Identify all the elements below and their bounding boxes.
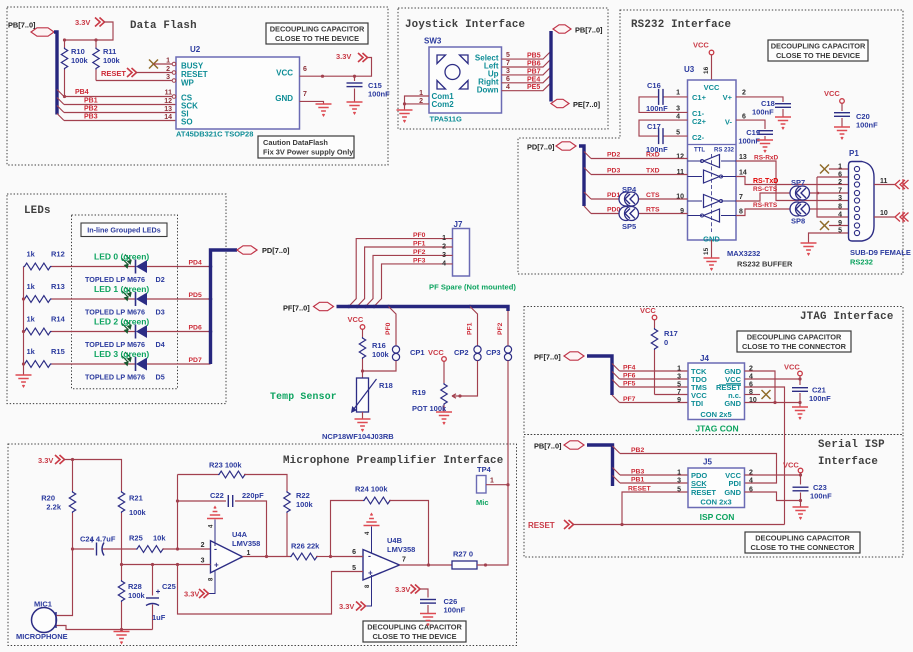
wires buffer stubs inside U3: [688, 160, 703, 162]
svg-text:PB5: PB5: [527, 53, 541, 60]
svg-text:1: 1: [490, 478, 494, 485]
svg-text:PF0: PF0: [413, 232, 426, 239]
svg-text:3: 3: [677, 374, 681, 381]
wire mic+ to C24 node: [57, 549, 73, 616]
wire PB3 to J5 pin1: [620, 474, 688, 476]
svg-text:PF1: PF1: [467, 322, 474, 335]
svg-text:Serial ISP: Serial ISP: [818, 439, 885, 451]
svg-text:1: 1: [677, 470, 681, 477]
capacitor C22 220pF: [178, 500, 227, 502]
bus PB/PE vertical (joystick): [549, 31, 552, 102]
resistor R20 2.2k: [72, 460, 74, 492]
svg-text:C2-: C2-: [692, 133, 705, 142]
resistor R16 100k: [362, 329, 364, 337]
svg-text:R24 100k: R24 100k: [355, 485, 388, 494]
junction C23 vcc: [799, 473, 802, 476]
svg-text:VCC: VCC: [276, 69, 293, 78]
ground (R19): [436, 412, 452, 424]
svg-text:1uF: 1uF: [152, 613, 166, 622]
ground (joystick): [397, 110, 413, 122]
svg-text:7: 7: [303, 91, 307, 98]
svg-text:3: 3: [201, 558, 205, 565]
svg-text:RESET: RESET: [691, 488, 716, 497]
svg-text:MICROPHONE: MICROPHONE: [16, 632, 68, 641]
LED D2 arrows: [122, 255, 131, 268]
svg-text:SW3: SW3: [424, 37, 442, 46]
junction R21/R28 bias: [120, 563, 123, 566]
svg-text:SP5: SP5: [622, 222, 636, 231]
bus branch PF6: [612, 372, 620, 380]
inner dashed box In-line Grouped LEDs: [72, 215, 178, 389]
junction rail R13: [22, 297, 25, 300]
bus branch PF0: [389, 307, 397, 346]
bus entry PD[7..0] (rs232): [556, 142, 576, 150]
junction RESET/J5: [620, 523, 623, 526]
svg-text:GND: GND: [724, 488, 741, 497]
svg-text:Caution DataFlash: Caution DataFlash: [263, 138, 328, 147]
svg-text:WP: WP: [181, 79, 195, 88]
svg-text:V+: V+: [723, 93, 733, 102]
svg-text:100k: 100k: [128, 591, 146, 600]
svg-text:R13: R13: [51, 282, 65, 291]
junction rail R14: [22, 330, 25, 333]
svg-text:PF7: PF7: [623, 396, 636, 403]
U3 divider TTL/RS232: [688, 144, 737, 146]
surge protector SP5: [619, 207, 639, 221]
svg-text:PB6: PB6: [527, 61, 541, 68]
junction bus PD5: [209, 297, 213, 301]
svg-text:2: 2: [201, 542, 205, 549]
connector J7 box: [453, 229, 470, 277]
svg-text:4: 4: [676, 114, 680, 121]
svg-text:R19: R19: [412, 388, 426, 397]
junction bus PD4: [209, 265, 213, 269]
wire RS-CTS pin7 to P1 pin7 through SP7: [736, 193, 792, 201]
svg-text:100k: 100k: [296, 500, 314, 509]
svg-text:PD[7..0]: PD[7..0]: [527, 143, 555, 152]
junction CTS row with tie: [817, 192, 820, 195]
svg-text:5: 5: [677, 382, 681, 389]
wire 3.3V rail to R20/R21: [64, 460, 122, 492]
junction C15 top: [353, 75, 356, 78]
ground (C23): [800, 501, 802, 508]
wire RESET to pin 2: [136, 72, 173, 74]
svg-text:PF4: PF4: [623, 365, 636, 372]
section border RS232 Interface (L-shaped): [518, 10, 903, 274]
section border Microphone Preamplifier Interface: [8, 444, 517, 646]
capacitor C24 4.7uF polarized: [73, 548, 95, 550]
svg-text:TDI: TDI: [691, 399, 703, 408]
wire PB3 to pin 14 SO: [64, 120, 176, 122]
svg-text:13: 13: [164, 106, 172, 113]
wire J7 pin 1 PF0: [349, 239, 453, 307]
svg-text:12: 12: [676, 154, 684, 161]
resistor R23 100k (feedback): [178, 474, 219, 476]
svg-text:1: 1: [677, 366, 681, 373]
svg-text:PB1: PB1: [631, 477, 644, 484]
svg-text:3: 3: [677, 478, 681, 485]
svg-text:CLOSE TO THE DEVICE: CLOSE TO THE DEVICE: [776, 51, 860, 60]
wire J4 pin6 RESET down to ISP: [745, 387, 785, 525]
svg-text:4: 4: [749, 478, 753, 485]
feedback wire to R23/C22: [177, 475, 179, 550]
svg-text:CLOSE TO THE DEVICE: CLOSE TO THE DEVICE: [372, 632, 456, 641]
wire PB4 to pin 11 CS: [64, 96, 173, 98]
svg-text:DECOUPLING CAPACITOR: DECOUPLING CAPACITOR: [367, 623, 462, 632]
buffer T1 (TxD) in U3: [704, 170, 720, 183]
svg-text:PD7: PD7: [189, 357, 202, 364]
note decoupling capacitor close to the device (mic): [363, 621, 466, 642]
wire VCC to pin 16: [711, 55, 713, 80]
svg-text:100nF: 100nF: [809, 394, 831, 403]
U4B pin4 to flipped ground: [371, 527, 373, 554]
ground (C26): [420, 614, 436, 626]
svg-text:RS-RTS: RS-RTS: [753, 202, 778, 209]
svg-text:PF1: PF1: [413, 241, 426, 248]
svg-text:0: 0: [664, 338, 668, 347]
LED D2: [136, 260, 148, 274]
wire PB1 to pin 12 SCK: [64, 104, 176, 106]
svg-text:In-line Grouped LEDs: In-line Grouped LEDs: [87, 226, 160, 235]
svg-text:VCC: VCC: [784, 363, 800, 372]
junction R19 wiper: [458, 394, 461, 397]
bus branch PB2: [613, 446, 621, 454]
section border Joystick Interface: [398, 8, 608, 129]
svg-text:TOPLED LP M676: TOPLED LP M676: [85, 308, 145, 317]
svg-text:JTAG Interface: JTAG Interface: [800, 311, 894, 323]
LED D4: [136, 325, 148, 339]
bus entry PF[7..0] (JTAG): [564, 352, 584, 360]
resistor R26 22k: [290, 553, 318, 560]
capacitor C20: [841, 103, 843, 111]
LED D3: [136, 292, 148, 306]
svg-text:R21: R21: [129, 494, 143, 503]
svg-text:R14: R14: [51, 315, 66, 324]
ground (C20): [834, 127, 850, 139]
junction C21 gnd: [798, 401, 801, 404]
svg-text:1k: 1k: [27, 250, 36, 259]
wire PF6 to J4 pin3: [620, 378, 689, 380]
svg-text:PDI: PDI: [728, 479, 741, 488]
ground (R18): [355, 419, 371, 431]
ground (P1 pin5): [801, 243, 817, 255]
wire pin3 row (bias): [122, 564, 211, 566]
thermistor R18 NCP18WF104J03RB: [362, 371, 364, 378]
svg-text:2: 2: [838, 179, 842, 186]
junction R26/U4B- /R24: [329, 555, 332, 558]
svg-text:RS-CTS: RS-CTS: [753, 186, 778, 193]
svg-text:Temp Sensor: Temp Sensor: [270, 391, 337, 402]
svg-text:R17: R17: [664, 329, 678, 338]
ground (C15): [347, 102, 363, 114]
wire J5 pin2 VCC: [745, 474, 801, 476]
svg-text:PB2: PB2: [84, 106, 98, 113]
junction com2: [403, 102, 406, 105]
shield symbol (pin 10): [895, 212, 909, 223]
svg-text:SP8: SP8: [791, 217, 805, 226]
svg-text:PF3: PF3: [413, 257, 426, 264]
svg-text:LEDs: LEDs: [24, 205, 51, 217]
wire J7 pin 2 PF1: [357, 247, 452, 307]
buffer R1 (RxD) in U3: [704, 155, 720, 168]
switch SW3 joystick box: [429, 47, 502, 113]
joystick glyph corner triangles: [437, 55, 468, 89]
no-connect X J4 pin8: [745, 394, 761, 396]
svg-text:7: 7: [739, 194, 743, 201]
wire PD2 RxD: [591, 158, 688, 160]
bus entry PE[7..0] (joystick): [551, 99, 569, 107]
svg-text:100k: 100k: [372, 350, 390, 359]
wire PD3 TXD: [591, 174, 688, 176]
junction feedback C22: [176, 499, 179, 502]
junction R24/out: [427, 563, 430, 566]
wire RESET to J5 pin5: [622, 492, 688, 525]
svg-text:PB4: PB4: [75, 89, 89, 96]
note caution dataflash: [258, 136, 354, 158]
svg-text:100nF: 100nF: [368, 90, 390, 99]
svg-text:D2: D2: [156, 275, 165, 284]
svg-text:CON 2x5: CON 2x5: [700, 410, 731, 419]
svg-text:CP3: CP3: [486, 348, 501, 357]
svg-text:U4A: U4A: [232, 530, 248, 539]
svg-text:3: 3: [506, 68, 510, 75]
svg-text:Data Flash: Data Flash: [130, 20, 197, 32]
no-connect X on pin 1: [149, 60, 158, 69]
svg-text:LED 1 (green): LED 1 (green): [94, 284, 149, 294]
junction C23 gnd: [799, 499, 802, 502]
svg-text:U4B: U4B: [387, 536, 403, 545]
svg-text:PF2: PF2: [413, 249, 426, 256]
resistor R14 1k: [24, 328, 52, 335]
svg-text:TXD: TXD: [646, 168, 660, 175]
test point CP2: [474, 346, 481, 361]
wire TP4 to output vertical: [486, 484, 508, 486]
wire J7 pin 3 PF2: [366, 255, 453, 306]
capacitor C18 on V+: [736, 97, 783, 102]
svg-text:1: 1: [838, 164, 842, 171]
svg-text:LED 3 (green): LED 3 (green): [94, 349, 149, 359]
connector P1 SUB-D9 body: [849, 162, 875, 242]
svg-text:100k: 100k: [103, 56, 121, 65]
svg-text:PF[7..0]: PF[7..0]: [283, 304, 310, 313]
wire CP3 to mic TP4 (vertical): [507, 361, 509, 485]
svg-text:SP4: SP4: [622, 185, 637, 194]
svg-text:9: 9: [677, 397, 681, 404]
svg-text:AT45DB321C TSOP28: AT45DB321C TSOP28: [176, 130, 253, 139]
svg-text:C22: C22: [210, 491, 224, 500]
resistor R22 100k: [284, 491, 290, 513]
wire LED D4 to bus PD6: [147, 331, 211, 333]
svg-text:14: 14: [739, 170, 747, 177]
svg-text:6: 6: [352, 549, 356, 556]
bus branch PB3: [613, 468, 621, 476]
wire PD1 CTS: [591, 198, 620, 200]
bus PD vertical (LEDs): [211, 250, 238, 364]
svg-text:1: 1: [676, 90, 680, 97]
wire P1 pin5 to ground: [809, 233, 849, 243]
svg-text:V-: V-: [725, 118, 733, 127]
svg-text:VCC: VCC: [824, 89, 840, 98]
ground (mic rail): [114, 632, 130, 644]
junction C24/R20/mic: [71, 547, 74, 550]
LED D5 arrows: [122, 352, 131, 365]
wire CP1 to R18 node: [363, 361, 397, 371]
svg-text:11: 11: [165, 90, 173, 97]
svg-text:CTS: CTS: [646, 192, 660, 199]
svg-text:R16: R16: [372, 341, 386, 350]
svg-text:R27 0: R27 0: [453, 550, 473, 559]
svg-text:9: 9: [838, 220, 842, 227]
bus entry PB[7..0] (ISP): [564, 441, 584, 449]
svg-text:VCC: VCC: [693, 41, 709, 50]
wire R27 to output node: [477, 485, 508, 565]
wire RS-TxD pin14 to P1 pin2: [736, 177, 849, 185]
svg-text:3.3V: 3.3V: [336, 52, 351, 61]
wire PB1 to J5 pin3: [620, 482, 688, 484]
LED D4 arrows: [122, 320, 131, 333]
connector J5 box: [688, 468, 745, 508]
svg-text:CP1: CP1: [410, 348, 425, 357]
ground (C19): [757, 140, 773, 152]
svg-text:+: +: [368, 569, 373, 578]
wire VCC pin 6 to 3.3V: [300, 58, 372, 77]
svg-text:4: 4: [838, 212, 842, 219]
ground (C18): [775, 117, 791, 129]
svg-text:7: 7: [506, 60, 510, 67]
junction R27 out: [484, 563, 487, 566]
svg-text:Com2: Com2: [432, 100, 455, 109]
no-connect X on P1 pin9: [820, 221, 829, 230]
svg-text:R25: R25: [129, 534, 143, 543]
junction R11 top: [94, 38, 97, 41]
wire pin 1: [154, 63, 173, 65]
svg-text:PB3: PB3: [84, 114, 98, 121]
svg-text:Down: Down: [477, 86, 499, 95]
junction GND pin10: [773, 401, 776, 404]
svg-text:7: 7: [402, 557, 406, 564]
svg-text:3.3V: 3.3V: [38, 456, 53, 465]
svg-text:U2: U2: [190, 45, 201, 54]
svg-text:DECOUPLING CAPACITOR: DECOUPLING CAPACITOR: [755, 534, 850, 543]
svg-text:1k: 1k: [27, 282, 36, 291]
wire P1 pin 11 shell: [874, 184, 896, 186]
svg-text:RS 232: RS 232: [714, 148, 735, 154]
wire PB7 joystick row: [502, 67, 551, 75]
bus branch PB1: [57, 98, 64, 105]
bus branch PB4: [57, 90, 64, 97]
svg-text:PD6: PD6: [189, 325, 202, 332]
svg-text:SUB-D9 FEMALE: SUB-D9 FEMALE: [850, 248, 911, 257]
wire PB2 to J5 pin4: [620, 454, 777, 484]
bus PF horizontal: [337, 307, 509, 312]
bus entry PD[7..0] (LEDs): [237, 246, 257, 254]
svg-text:100nF: 100nF: [444, 606, 466, 615]
svg-text:1k: 1k: [27, 315, 36, 324]
svg-text:100nF: 100nF: [810, 492, 832, 501]
junction TP4: [506, 483, 509, 486]
svg-text:MAX3232: MAX3232: [727, 249, 760, 258]
svg-text:PB2: PB2: [631, 447, 644, 454]
test point CP3: [504, 346, 511, 361]
surge protector SP4: [619, 192, 639, 206]
svg-text:P1: P1: [849, 149, 859, 158]
svg-text:PB1: PB1: [84, 98, 98, 105]
test point TP4: [477, 476, 487, 494]
bus branch PF7: [612, 395, 620, 403]
resistor R12 1k: [24, 263, 52, 270]
svg-text:R10: R10: [71, 47, 85, 56]
bus branch PD2: [584, 152, 591, 159]
svg-text:D5: D5: [156, 373, 165, 382]
svg-text:6: 6: [838, 172, 842, 179]
resistor R24 100k (U4B feedback): [363, 497, 391, 504]
junction bus PD6: [209, 330, 213, 334]
wire PB2 to pin 13 SI: [64, 112, 176, 114]
capacitor C21: [799, 376, 801, 385]
svg-text:8: 8: [838, 204, 842, 211]
connector J4 box: [688, 363, 745, 420]
wire U4B out to R27: [400, 564, 453, 566]
svg-text:PD5: PD5: [189, 292, 202, 299]
svg-text:VCC: VCC: [704, 83, 720, 92]
resistor R13 1k: [24, 296, 52, 303]
svg-text:VCC: VCC: [348, 315, 364, 324]
svg-text:DECOUPLING CAPACITOR: DECOUPLING CAPACITOR: [747, 333, 842, 342]
svg-text:PF Spare (Not mounted): PF Spare (Not mounted): [429, 283, 516, 292]
svg-text:14: 14: [164, 114, 172, 121]
note decoupling capacitor close to the device (data flash): [266, 23, 368, 44]
svg-text:6: 6: [742, 114, 746, 121]
wire J7 pin 4 PF3: [374, 264, 453, 307]
svg-text:R11: R11: [103, 47, 116, 56]
wire Com1/Com2 to ground: [405, 96, 430, 110]
note decoupling capacitor close to the device (rs232): [768, 40, 868, 61]
svg-text:3.3V: 3.3V: [395, 585, 410, 594]
microphone MIC1: [32, 608, 57, 633]
svg-text:TOPLED LP M676: TOPLED LP M676: [85, 373, 145, 382]
U4B pin8 to 3.3V: [365, 575, 372, 606]
svg-text:R22: R22: [296, 491, 310, 500]
ground (LED rail): [16, 375, 32, 387]
wire P1 pin 10 shell: [874, 216, 896, 218]
svg-text:VCC: VCC: [783, 461, 799, 470]
bus branch PF4: [612, 364, 620, 372]
svg-text:Fix 3V Power supply Only: Fix 3V Power supply Only: [263, 148, 354, 157]
buffer T2 (RTS) in U3: [704, 209, 720, 222]
wire PD0 RTS: [591, 213, 620, 215]
wire J5 pin6 GND: [745, 492, 801, 501]
svg-text:CON 2x3: CON 2x3: [700, 498, 731, 507]
LED D5: [136, 357, 148, 371]
bus branch PD0: [584, 206, 591, 214]
svg-text:TOPLED LP M676: TOPLED LP M676: [85, 275, 145, 284]
svg-text:1: 1: [166, 58, 170, 65]
svg-text:10k: 10k: [153, 534, 166, 543]
ground (U3 pin15): [704, 258, 720, 270]
svg-text:RESET: RESET: [528, 521, 555, 530]
wire mic- to gnd rail: [57, 626, 153, 630]
junction VCC wire: [321, 75, 324, 78]
svg-text:J4: J4: [700, 354, 709, 363]
resistor R10: [64, 40, 66, 48]
ground (U2 pin7): [316, 104, 332, 116]
svg-text:C1+: C1+: [692, 93, 707, 102]
bus junctions (J7 stubs): [347, 305, 351, 309]
svg-text:SO: SO: [181, 118, 193, 127]
svg-text:TTL: TTL: [694, 148, 705, 154]
section border LEDs: [7, 194, 226, 404]
svg-text:C16: C16: [647, 81, 661, 90]
